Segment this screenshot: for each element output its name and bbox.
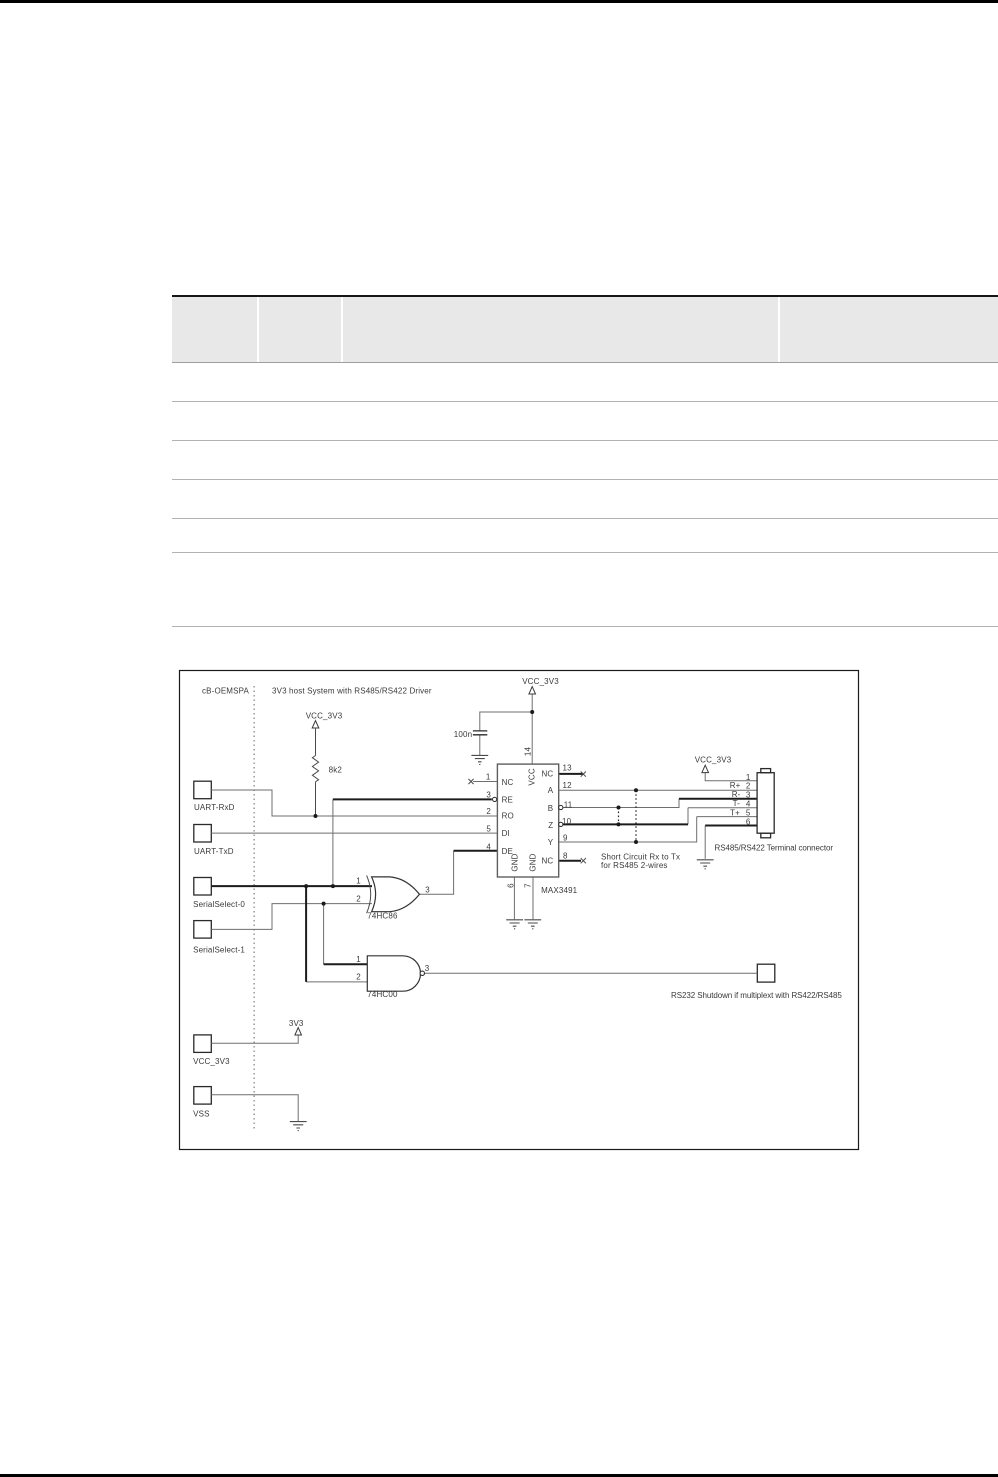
svg-text:2: 2 xyxy=(486,807,491,816)
svg-text:NC: NC xyxy=(541,769,553,778)
svg-text:R+: R+ xyxy=(730,781,741,790)
svg-text:VCC_3V3: VCC_3V3 xyxy=(306,712,343,721)
svg-text:5: 5 xyxy=(746,809,751,818)
svg-text:12: 12 xyxy=(563,781,573,790)
svg-text:1: 1 xyxy=(356,955,361,964)
svg-text:3: 3 xyxy=(746,791,751,800)
svg-text:NC: NC xyxy=(502,778,514,787)
svg-text:1: 1 xyxy=(356,877,361,886)
svg-text:1: 1 xyxy=(746,773,751,782)
svg-text:VCC_3V3: VCC_3V3 xyxy=(193,1057,230,1066)
svg-text:MAX3491: MAX3491 xyxy=(541,886,578,895)
svg-text:VCC_3V3: VCC_3V3 xyxy=(522,677,559,686)
svg-text:6: 6 xyxy=(746,818,751,827)
svg-text:NC: NC xyxy=(541,857,553,866)
svg-text:3V3: 3V3 xyxy=(289,1019,304,1028)
svg-text:RE: RE xyxy=(502,796,513,805)
svg-text:2: 2 xyxy=(746,782,751,791)
svg-text:9: 9 xyxy=(563,834,568,843)
svg-text:11: 11 xyxy=(564,800,573,809)
svg-text:VCC_3V3: VCC_3V3 xyxy=(695,755,732,764)
svg-text:UART-TxD: UART-TxD xyxy=(194,847,234,856)
svg-text:GND: GND xyxy=(529,853,538,871)
svg-text:RO: RO xyxy=(502,812,514,821)
svg-text:3: 3 xyxy=(486,791,491,800)
svg-text:T+: T+ xyxy=(730,808,740,817)
svg-text:13: 13 xyxy=(563,764,573,773)
svg-text:3: 3 xyxy=(425,964,430,973)
svg-text:SerialSelect-1: SerialSelect-1 xyxy=(193,946,245,955)
svg-text:R-: R- xyxy=(732,790,741,799)
svg-text:8k2: 8k2 xyxy=(329,766,343,775)
svg-text:for RS485 2-wires: for RS485 2-wires xyxy=(601,861,668,870)
svg-text:3V3 host System with RS485/RS4: 3V3 host System with RS485/RS422 Driver xyxy=(272,687,432,696)
svg-text:A: A xyxy=(548,786,554,795)
svg-text:4: 4 xyxy=(746,800,751,809)
svg-text:Z: Z xyxy=(548,821,553,830)
svg-text:2: 2 xyxy=(356,895,361,904)
svg-text:5: 5 xyxy=(486,825,491,834)
svg-text:Y: Y xyxy=(548,838,554,847)
svg-text:74HC86: 74HC86 xyxy=(367,912,398,921)
svg-text:2: 2 xyxy=(356,973,361,982)
svg-text:4: 4 xyxy=(486,843,491,852)
svg-text:10: 10 xyxy=(562,817,572,826)
svg-text:VCC: VCC xyxy=(528,768,537,785)
svg-text:SerialSelect-0: SerialSelect-0 xyxy=(193,900,245,909)
svg-text:B: B xyxy=(548,804,554,813)
svg-text:100n: 100n xyxy=(454,730,472,739)
svg-text:T-: T- xyxy=(733,799,741,808)
svg-text:RS485/RS422 Terminal connector: RS485/RS422 Terminal connector xyxy=(715,843,834,852)
svg-text:7: 7 xyxy=(524,883,533,888)
svg-text:14: 14 xyxy=(524,747,533,757)
svg-text:DI: DI xyxy=(502,829,510,838)
svg-text:3: 3 xyxy=(425,885,430,894)
svg-text:RS232 Shutdown if multiplext w: RS232 Shutdown if multiplext with RS422/… xyxy=(671,991,842,1000)
svg-text:GND: GND xyxy=(511,853,520,871)
svg-text:6: 6 xyxy=(507,883,516,888)
svg-text:74HC00: 74HC00 xyxy=(367,990,398,999)
svg-text:cB-OEMSPA: cB-OEMSPA xyxy=(202,687,250,696)
svg-text:1: 1 xyxy=(486,773,491,782)
svg-text:8: 8 xyxy=(563,852,568,861)
svg-text:UART-RxD: UART-RxD xyxy=(194,803,235,812)
svg-text:VSS: VSS xyxy=(193,1110,209,1119)
